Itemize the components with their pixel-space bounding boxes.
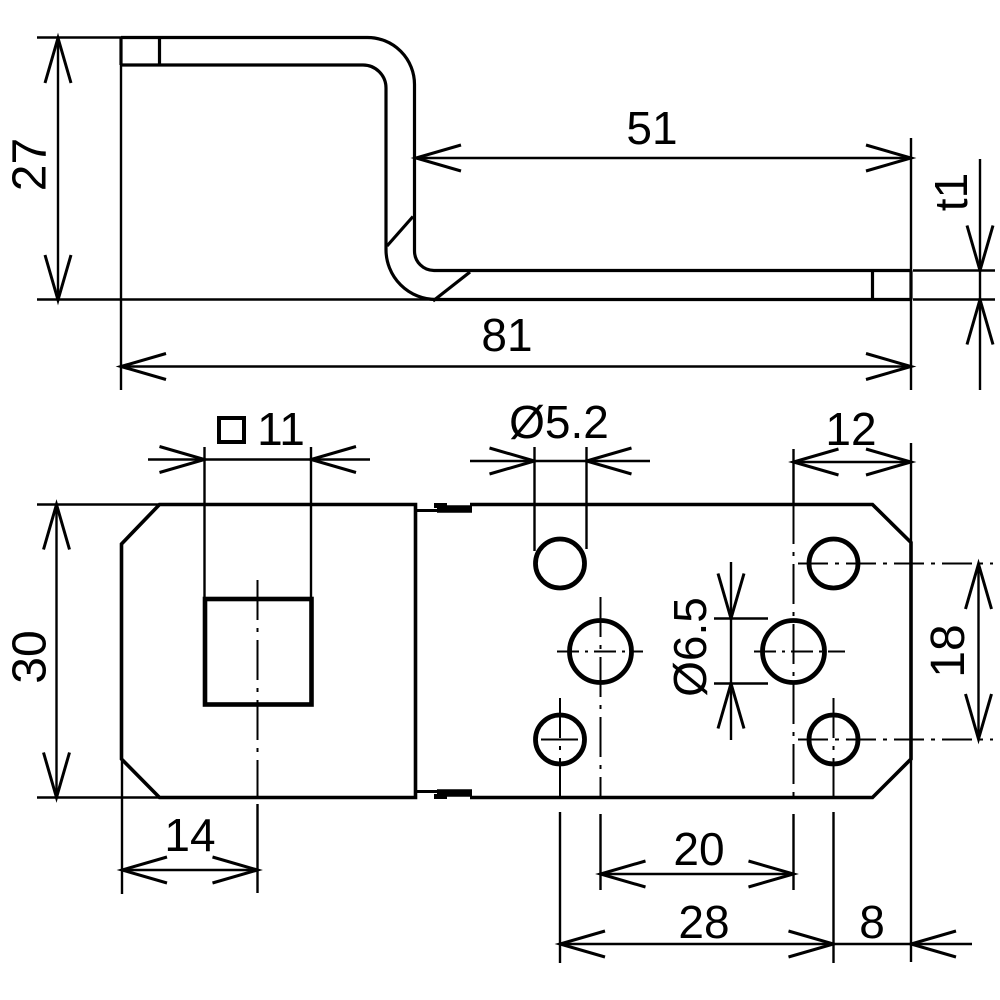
dim dia6.5 line middle: [730, 619, 732, 684]
dim dia6.5 arrow down: [718, 574, 744, 619]
dim 28 extension right (below plate): [832, 812, 834, 963]
dim 81 arrow left: [121, 354, 166, 380]
junction top thin edge: [416, 509, 472, 512]
dim 20 arrow left: [601, 861, 646, 887]
centerline H6 horizontal: [798, 739, 993, 741]
dim t1 line middle: [979, 271, 981, 300]
dim sq11 arrow right-pointing: [160, 447, 205, 473]
dim sq11 extension right: [310, 447, 312, 597]
svg-text:51: 51: [626, 102, 677, 154]
dim 14 extension right (below plate): [256, 804, 258, 893]
dim 30 arrow down: [44, 753, 70, 798]
bend tangent mark strip: [433, 272, 470, 301]
junction bottom thin edge: [416, 790, 472, 793]
dim sq11 arrow left-pointing: [311, 447, 356, 473]
centerline square vertical: [257, 580, 259, 798]
flange chamfer edge tick: [158, 38, 161, 66]
extension line x911 (51/81): [910, 138, 912, 390]
dim 20 line: [601, 873, 794, 875]
dim dia6.5 arrow up: [718, 684, 744, 729]
dim t1 arrow down: [967, 226, 993, 271]
dim t1 extension bottom: [913, 298, 995, 300]
dim 81 extension left: [120, 65, 122, 390]
svg-text:30: 30: [4, 630, 57, 683]
hole H3 bottom-left: [536, 715, 585, 764]
svg-text:Ø5.2: Ø5.2: [509, 396, 609, 448]
dim dia6.5 line upper: [730, 562, 732, 619]
plan right section outline: [470, 505, 911, 798]
square symbol of label 11: [219, 418, 244, 442]
dim t1 arrow up: [967, 300, 993, 345]
dim dia5.2 extension right: [585, 447, 587, 549]
hole H4 top-right: [809, 539, 858, 588]
dim 12 line: [794, 461, 912, 463]
plan right edge extension below: [910, 759, 912, 962]
dim 8 line: [834, 943, 912, 945]
svg-text:12: 12: [825, 403, 876, 455]
centerline H3 horizontal tick: [541, 739, 578, 741]
dim 12 extension left (above plate): [792, 449, 794, 504]
svg-text:14: 14: [164, 809, 215, 861]
centerline H5 horizontal: [754, 651, 845, 653]
hole H6 bottom-right: [809, 715, 858, 764]
dim 51 arrow left: [416, 145, 461, 171]
junction top weld bar: [437, 505, 472, 513]
flange left end edge: [119, 38, 122, 66]
dim t1 extension top: [913, 269, 995, 271]
dim t1 line lower: [979, 300, 981, 391]
junction bottom weld nub: [434, 794, 447, 799]
dim dia5.2 extension left: [533, 447, 535, 551]
dim 18 arrow down: [966, 694, 992, 739]
dim 30 extension bottom: [37, 796, 159, 798]
dim dia6.5 extension top: [714, 617, 768, 619]
centerline H2 vertical: [600, 597, 602, 798]
dim 14 arrow right: [213, 857, 258, 883]
dim 27 arrow up: [45, 38, 71, 83]
hole H1 top-left: [536, 539, 585, 588]
dim 28 line: [560, 943, 834, 945]
dim 51 line: [416, 157, 911, 159]
junction bottom weld bar: [437, 789, 472, 797]
centerline H4 horizontal: [798, 563, 993, 565]
dim 20 extension right (below plate): [792, 814, 794, 890]
dim dia5.2 tail right: [587, 460, 651, 462]
svg-text:28: 28: [678, 896, 729, 948]
dim 27 arrow down: [45, 255, 71, 300]
square hole 11: [205, 599, 312, 705]
strip right end edge: [909, 271, 912, 300]
Z-profile outer contour (side view): [121, 38, 911, 271]
dim 8 arrow left-pointing: [911, 931, 956, 957]
dim dia5.2 arrow right-pointing: [490, 448, 535, 474]
svg-text:Ø6.5: Ø6.5: [664, 597, 716, 697]
dim 12 extension right: [910, 443, 912, 543]
strip chamfer edge tick: [871, 271, 874, 300]
dim dia6.5 line lower: [730, 684, 732, 741]
plan left section outline: [122, 505, 416, 798]
dim 30 arrow up: [44, 505, 70, 550]
svg-text:18: 18: [922, 624, 975, 677]
dim 27 extension bottom / base line: [37, 298, 435, 300]
dim sq11 tail left: [148, 458, 205, 460]
dim 12 arrow right: [866, 449, 911, 475]
dim 20 arrow right: [749, 861, 794, 887]
dim 28 arrow left: [560, 931, 605, 957]
dim 81 arrow right: [866, 354, 911, 380]
dim 28 extension left (below plate): [559, 812, 561, 963]
dim 18 line: [977, 564, 979, 739]
dim 18 arrow up: [966, 564, 992, 609]
svg-text:8: 8: [859, 896, 885, 948]
dim 14 line: [122, 869, 258, 871]
dim dia5.2 tail left: [470, 460, 535, 462]
dim dia5.2 line: [535, 460, 587, 462]
bend tangent mark web: [387, 217, 413, 247]
dim sq11 extension left: [203, 447, 205, 597]
svg-text:27: 27: [4, 138, 57, 191]
dim 27 extension top: [37, 36, 122, 38]
dim 30 line: [55, 505, 57, 798]
dim 14 extension left: [121, 760, 123, 894]
dim 28 arrow right: [789, 931, 834, 957]
dim sq11 tail right: [311, 458, 370, 460]
dim 30 extension top: [37, 503, 159, 505]
dim 27 line: [57, 38, 59, 300]
svg-text:81: 81: [481, 309, 532, 361]
dim 12 arrow left: [794, 449, 839, 475]
dim dia5.2 arrow left-pointing: [587, 448, 632, 474]
svg-text:20: 20: [673, 823, 724, 875]
dim t1 line upper: [979, 159, 981, 271]
dim dia6.5 extension bottom: [714, 682, 768, 684]
dim 81 line: [121, 365, 911, 367]
centerline H6 vertical: [833, 698, 835, 798]
junction top weld nub: [434, 503, 447, 508]
hole H5 middle-right: [763, 621, 825, 683]
dim 8 tail right: [911, 943, 972, 945]
centerline H5 vertical: [793, 504, 795, 798]
hole H2 middle-left: [570, 621, 632, 683]
dim 51 arrow right: [866, 145, 911, 171]
svg-text:11: 11: [257, 403, 305, 455]
Z-profile inner contour (side view): [121, 65, 911, 300]
svg-text:t1: t1: [925, 173, 977, 211]
dim sq11 line: [205, 458, 312, 460]
centerline H2 horizontal: [557, 651, 643, 653]
dim 20 extension left (below plate): [599, 814, 601, 890]
dim 14 arrow left: [122, 857, 167, 883]
centerline H3 vertical: [559, 698, 561, 798]
